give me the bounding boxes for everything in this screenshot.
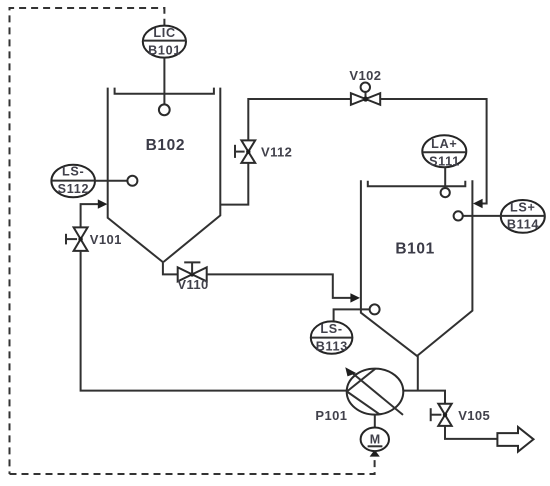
svg-text:V102: V102: [349, 68, 381, 83]
arrowhead into B101 wall: [350, 293, 360, 302]
svg-text:B114: B114: [507, 218, 539, 232]
valve V102 with actuator: [351, 83, 380, 105]
wire: transfer line down into tank B101: [380, 99, 486, 204]
wire: V110 to tank B101 inlet: [207, 274, 352, 298]
instrument LIC B101: [143, 26, 186, 58]
valve V112: [235, 140, 255, 163]
svg-text:M: M: [370, 433, 380, 447]
tank B102: [108, 88, 221, 262]
wire: B102 to valve V112 riser: [220, 163, 248, 205]
svg-text:LS+: LS+: [510, 200, 536, 214]
motor M: [361, 415, 389, 452]
svg-text:LS-: LS-: [320, 322, 342, 336]
node: B114 sensor circle in B101: [454, 211, 463, 220]
wire: B113 sensor to instrument: [334, 309, 370, 321]
wire: B102 outlet to valve V110: [163, 261, 178, 274]
wire: B101 outlet down to pump line: [417, 356, 419, 391]
wire: S112 stem into tank B102: [95, 180, 127, 182]
svg-text:V110: V110: [177, 277, 208, 292]
wire: V101 down to pump suction line: [81, 251, 347, 391]
svg-text:B101: B101: [395, 240, 434, 257]
svg-text:B113: B113: [316, 339, 348, 353]
wire: B114 stem into tank B101: [463, 215, 501, 217]
instrument LS- B113: [311, 321, 353, 353]
wire: S111 stem into tank B101: [444, 167, 446, 188]
node: B113 sensor circle in B101: [370, 304, 380, 314]
wire: dashed signal border left/top from LIC controller: [10, 8, 165, 474]
arrowhead into B101 right wall: [473, 199, 483, 208]
svg-text:P101: P101: [315, 408, 347, 423]
node: LIC sensor circle in B102: [159, 104, 170, 115]
svg-text:B102: B102: [146, 137, 185, 154]
valve V101: [66, 227, 88, 251]
wire: V112 riser to top transfer line: [248, 99, 351, 140]
instrument LS- S112: [51, 165, 95, 198]
svg-text:V101: V101: [90, 232, 122, 247]
node: S111 sensor circle in B101: [441, 188, 450, 197]
wire: V105 outlet to exit: [445, 426, 497, 439]
node: S112 sensor circle in B102: [127, 176, 137, 186]
instrument LS+ B114: [501, 200, 545, 233]
pump P101: [345, 367, 403, 415]
svg-text:V105: V105: [458, 408, 490, 423]
svg-text:B101: B101: [148, 44, 181, 58]
arrowhead into motor M: [370, 450, 380, 457]
svg-text:LS-: LS-: [62, 165, 84, 179]
wire: V101 inlet line into tank B102: [81, 204, 99, 227]
svg-text:LIC: LIC: [153, 26, 175, 40]
wire: pump discharge to V105 branch: [403, 391, 445, 404]
svg-text:S111: S111: [429, 154, 460, 168]
svg-text:S112: S112: [58, 182, 90, 196]
instrument LA+ S111: [422, 135, 466, 168]
wire: LIC stem into tank B102: [163, 58, 165, 105]
arrowhead into B102 wall: [98, 199, 108, 208]
tank B101: [361, 180, 473, 356]
valve V110: [178, 262, 207, 281]
exit flow block arrow: [497, 427, 533, 452]
svg-text:LA+: LA+: [431, 137, 457, 151]
svg-text:V112: V112: [261, 144, 292, 159]
valve V105: [431, 404, 452, 426]
wire: dashed signal bottom to motor M: [10, 456, 375, 474]
